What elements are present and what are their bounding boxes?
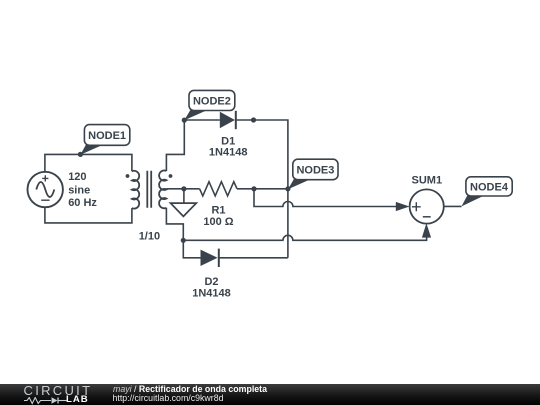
- svg-text:100 Ω: 100 Ω: [203, 216, 233, 228]
- svg-text:1/10: 1/10: [139, 230, 160, 242]
- svg-text:R1: R1: [211, 204, 225, 216]
- svg-text:NODE4: NODE4: [470, 181, 509, 193]
- svg-text:60 Hz: 60 Hz: [68, 197, 97, 209]
- svg-text:1N4148: 1N4148: [209, 147, 248, 159]
- svg-text:NODE2: NODE2: [193, 95, 231, 107]
- svg-text:SUM1: SUM1: [412, 174, 443, 186]
- svg-text:1N4148: 1N4148: [192, 287, 231, 299]
- svg-text:NODE1: NODE1: [88, 130, 126, 142]
- svg-text:120: 120: [68, 171, 86, 183]
- svg-text:D1: D1: [221, 135, 235, 147]
- svg-text:D2: D2: [204, 276, 218, 288]
- svg-text:NODE3: NODE3: [296, 164, 334, 176]
- svg-text:sine: sine: [68, 184, 90, 196]
